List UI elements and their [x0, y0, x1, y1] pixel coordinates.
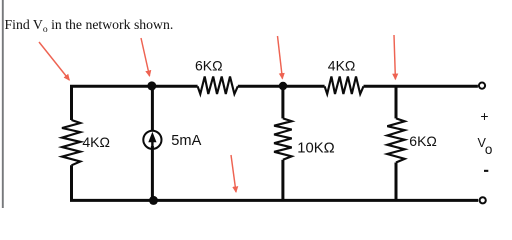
- resistor 6kohm vertical right branch: [387, 118, 404, 162]
- annotation arrow to node at 6k branch top: [394, 35, 395, 79]
- wire: 10k branch top: [281, 86, 284, 118]
- current source 5mA circle: [143, 131, 161, 149]
- wire: right 6k branch bottom: [395, 163, 398, 201]
- wire: 10k branch bottom: [281, 160, 284, 201]
- wire: current source branch bottom: [151, 146, 154, 200]
- node junction dot: top of 10k branch: [279, 82, 287, 90]
- annotation arrow to node at 10k branch top: [278, 36, 283, 79]
- svg-text:6KΩ: 6KΩ: [195, 58, 223, 74]
- wire: left branch bottom + bottom wire to output terminal: [72, 165, 479, 200]
- resistor 6kohm horizontal R top-left: [198, 77, 238, 95]
- annotation arrow to top-left corner node: [39, 42, 69, 80]
- wire: top wire from 4k resistor to output terminal: [364, 85, 478, 88]
- wire: top wire between 6k and 4k resistors: [238, 85, 325, 88]
- resistor 4kohm vertical left branch: [62, 120, 80, 165]
- page left border: [2, 0, 4, 208]
- resistor 10kohm vertical middle branch: [274, 118, 292, 159]
- node junction dot: top of current source branch: [147, 81, 156, 90]
- svg-text:5mA: 5mA: [171, 133, 201, 149]
- output terminal bottom (open circle): [480, 197, 486, 203]
- annotation arrow to node at current source top: [141, 38, 150, 76]
- node junction dot: bottom of current source branch: [149, 196, 158, 205]
- wire: top-left corner and top wire to 6k resistor: [72, 86, 198, 120]
- wire: right 6k branch top: [395, 86, 398, 118]
- output terminal top (open circle): [479, 83, 485, 89]
- resistor 4kohm horizontal top-right: [325, 77, 364, 95]
- svg-text:6KΩ: 6KΩ: [409, 133, 437, 149]
- svg-text:+: +: [480, 108, 488, 124]
- svg-text:10KΩ: 10KΩ: [297, 140, 334, 156]
- svg-text:4KΩ: 4KΩ: [328, 58, 356, 74]
- wire: current source branch top: [151, 86, 154, 131]
- current source arrow (up): [151, 140, 153, 148]
- svg-text:4KΩ: 4KΩ: [82, 134, 110, 150]
- annotation arrow to bottom wire: [231, 155, 236, 192]
- label minus sign (output polarity): [484, 170, 488, 172]
